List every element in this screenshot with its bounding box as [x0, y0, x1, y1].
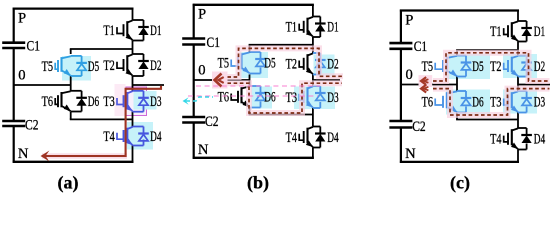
svg-text:T5: T5	[218, 56, 229, 72]
diode D2	[521, 61, 532, 63]
diode D3	[138, 97, 149, 99]
svg-text:D3: D3	[534, 95, 545, 111]
(a) wire clamp mid stubs	[70, 76, 72, 91]
(c) wire clamp top stub	[456, 50, 458, 56]
(a) wire clamp to T3-T4 junction	[70, 118, 133, 120]
highlight box around (a) T3	[126, 87, 147, 116]
svg-text:N: N	[198, 142, 209, 158]
svg-text:T2: T2	[103, 58, 114, 74]
svg-text:D6: D6	[264, 90, 275, 106]
svg-text:T6: T6	[42, 94, 53, 110]
gate of T2	[507, 60, 509, 72]
(b) N rail bottom wire	[193, 157, 314, 159]
(b) pink dashed line upper	[196, 85, 320, 87]
IGBT T5	[446, 57, 448, 73]
gate of T3	[507, 96, 509, 108]
diode D3	[521, 97, 532, 99]
(c) wire node 0 to clamp midpoint	[401, 84, 457, 86]
wire connectors of T3	[518, 90, 527, 92]
wire connectors of T6	[457, 90, 466, 92]
svg-text:P: P	[405, 12, 413, 28]
wire connectors of T1	[133, 19, 144, 21]
svg-text:T5: T5	[422, 59, 433, 75]
gate of T3	[303, 91, 305, 103]
gate of T5	[57, 60, 59, 72]
(c) red dashed upper commutation loop	[433, 53, 550, 81]
svg-text:T6: T6	[422, 95, 433, 111]
(b) red dashed upper commutation loop	[215, 48, 343, 77]
(a) P rail top wire	[13, 7, 134, 9]
(a) output wire	[133, 84, 165, 86]
IGBT T3	[306, 87, 308, 104]
diode D3	[315, 92, 326, 94]
IGBT T6	[446, 92, 448, 108]
gate of T2	[303, 58, 305, 70]
(b) pink halo lower loop	[215, 83, 342, 113]
(a) wire node 0 to clamp midpoint	[14, 84, 71, 86]
wire connectors of T6	[71, 90, 82, 92]
diode D6	[255, 92, 266, 94]
wire connectors of T4	[313, 126, 320, 128]
highlight glow behind (c) T2/D2	[503, 54, 537, 78]
svg-text:C1: C1	[207, 35, 221, 51]
svg-text:D5: D5	[88, 59, 99, 75]
(c) red dashed lower commutation loop	[433, 89, 550, 115]
(c) P rail top wire	[400, 9, 519, 11]
svg-text:T4: T4	[286, 130, 298, 146]
(b) pink dashed line lower	[188, 95, 318, 97]
(b) DC bus left rail	[193, 4, 195, 39]
(b) pink halo upper loop	[215, 48, 343, 77]
IGBT T2	[126, 55, 128, 72]
highlight glow behind (c) T6/D6	[446, 90, 490, 115]
svg-text:D2: D2	[327, 57, 338, 73]
(b) wire clamp to T3-T4 junction	[249, 114, 313, 116]
(c) red loop arrow upper at node 0	[419, 75, 433, 87]
(b) wire node 0 to clamp midpoint	[194, 79, 250, 81]
diode D5	[461, 61, 472, 63]
(a) red current arrow on N rail	[41, 151, 50, 162]
svg-text:P: P	[18, 10, 26, 26]
gate of T1	[123, 24, 125, 36]
(b) capacitor C1	[182, 37, 205, 40]
svg-text:D5: D5	[472, 59, 483, 75]
svg-text:D1: D1	[150, 23, 161, 39]
highlight glow behind (c) T3/D3	[503, 90, 537, 114]
(c) wire clamp to T1-T2 junction	[456, 49, 518, 51]
gate of T1	[303, 21, 305, 33]
highlight glow behind (a) T4/D4	[127, 122, 153, 150]
svg-text:T6: T6	[218, 90, 229, 106]
(c) capacitor C2	[389, 120, 412, 123]
wire connectors of T6	[250, 85, 261, 87]
diode D6	[461, 97, 472, 99]
svg-text:(a): (a)	[58, 173, 79, 194]
(b) cyan dashed transfer path with arrow	[186, 97, 213, 101]
(c) wire clamp bottom stub	[456, 113, 458, 120]
svg-text:D3: D3	[150, 94, 161, 110]
(b) wire clamp bottom stub	[249, 108, 251, 115]
IGBT T3	[126, 92, 128, 108]
svg-text:D1: D1	[327, 20, 338, 36]
(b) phase leg wire	[312, 5, 314, 17]
svg-text:P: P	[198, 7, 206, 23]
wire connectors of T1	[518, 20, 527, 22]
svg-text:T1: T1	[103, 23, 114, 39]
svg-text:D2: D2	[534, 59, 545, 75]
highlight glow behind (b) D6	[251, 87, 272, 109]
highlight glow behind (a) T3 pink wash	[115, 84, 126, 116]
gate of T5	[237, 57, 239, 69]
(c) phase leg wire	[517, 11, 519, 22]
(b) P rail top wire	[193, 4, 314, 6]
diode D1	[521, 27, 532, 29]
svg-text:T1: T1	[490, 24, 501, 40]
highlight glow behind (b) T3/D3	[294, 87, 335, 110]
svg-text:(c): (c)	[450, 173, 470, 194]
diode D5	[255, 58, 266, 60]
svg-text:N: N	[405, 146, 416, 162]
(b) wire clamp mid stubs	[249, 75, 251, 87]
diode D4	[138, 132, 149, 134]
IGBT T4	[511, 129, 513, 145]
wire connectors of T4	[518, 127, 527, 129]
gate of T1	[507, 25, 509, 37]
(c) pink halo lower loop	[433, 89, 550, 115]
svg-text:(b): (b)	[247, 173, 269, 194]
svg-text:D6: D6	[88, 94, 99, 110]
IGBT T1	[306, 18, 308, 33]
svg-text:D4: D4	[534, 132, 546, 148]
wire connectors of T2	[313, 52, 320, 54]
(a) wire clamp top stub	[70, 49, 72, 54]
wire connectors of T5	[250, 51, 261, 53]
(b) capacitor C2	[182, 116, 205, 119]
(c) N rail bottom wire	[400, 161, 519, 163]
(c) output wire	[518, 84, 550, 86]
svg-text:D4: D4	[327, 130, 339, 146]
(c) wire clamp mid stubs	[456, 77, 458, 92]
svg-text:T4: T4	[103, 129, 115, 145]
diode D4	[521, 134, 532, 136]
diode D1	[138, 26, 149, 28]
(a) DC bus left rail	[13, 8, 15, 43]
gate of T6	[57, 95, 59, 107]
(c) DC bus left rail	[400, 10, 402, 44]
(b) output wire	[313, 79, 340, 81]
wire connectors of T5	[457, 55, 466, 57]
svg-text:T3: T3	[490, 95, 501, 111]
(a) wire clamp bottom stub	[70, 112, 72, 120]
svg-text:T2: T2	[286, 57, 297, 73]
(c) pink halo upper loop	[433, 53, 550, 81]
IGBT T6	[60, 92, 62, 107]
(a) phase leg wire	[132, 9, 134, 20]
IGBT T6	[240, 87, 242, 103]
(b) red dashed lower commutation loop	[215, 83, 342, 113]
diode D2	[138, 60, 149, 62]
wire connectors of T1	[313, 16, 320, 18]
IGBT T2	[511, 57, 513, 73]
IGBT T4	[306, 128, 308, 144]
svg-text:C2: C2	[25, 118, 39, 134]
wire connectors of T5	[71, 55, 82, 57]
gate of T3	[123, 95, 125, 107]
highlight glow behind (a) T5/D5	[62, 56, 91, 81]
svg-text:T5: T5	[42, 59, 53, 75]
svg-text:C1: C1	[27, 38, 41, 54]
svg-text:D5: D5	[264, 56, 275, 72]
svg-text:D3: D3	[327, 90, 338, 106]
IGBT T3	[511, 92, 513, 108]
IGBT T1	[126, 21, 128, 36]
(a) capacitor C2	[2, 120, 25, 123]
svg-text:N: N	[18, 146, 29, 162]
diode D4	[315, 132, 326, 134]
svg-text:0: 0	[198, 63, 205, 79]
highlight glow behind (a) D3	[134, 91, 157, 110]
svg-text:C1: C1	[414, 39, 428, 55]
(c) red loop arrow lower at node 0	[421, 85, 426, 93]
svg-text:D6: D6	[472, 95, 483, 111]
gate of T2	[123, 59, 125, 71]
highlight glow behind (b) D2	[314, 55, 335, 76]
svg-text:T1: T1	[286, 20, 297, 36]
svg-text:0: 0	[406, 67, 413, 83]
gate of T4	[123, 130, 125, 142]
(b) wire clamp to T1-T2 junction	[249, 44, 313, 46]
svg-text:D4: D4	[150, 129, 162, 145]
gate of T4	[303, 131, 305, 143]
svg-text:D1: D1	[534, 24, 545, 40]
diode D6	[76, 97, 87, 99]
svg-text:T3: T3	[103, 94, 114, 110]
IGBT T2	[306, 54, 308, 70]
(a) red current path wire	[46, 86, 161, 156]
(a) N rail bottom wire	[13, 161, 134, 163]
IGBT T5	[60, 57, 62, 72]
IGBT T4	[126, 128, 128, 142]
wire connectors of T3	[133, 90, 144, 92]
svg-text:C2: C2	[205, 114, 219, 130]
wire connectors of T2	[133, 53, 144, 55]
wire connectors of T3	[313, 85, 320, 87]
wire connectors of T2	[518, 55, 527, 57]
(c) wire clamp to T3-T4 junction	[456, 119, 518, 121]
(b) red loop arrow at node 0	[212, 72, 228, 89]
svg-text:D2: D2	[150, 58, 161, 74]
highlight glow behind (c) T5/D5	[446, 54, 490, 79]
svg-text:C2: C2	[412, 119, 426, 135]
gate of T4	[507, 133, 509, 145]
(a) capacitor C1	[2, 41, 25, 44]
IGBT T5	[240, 53, 242, 69]
diode D1	[315, 22, 326, 24]
(b) wire clamp top stub	[249, 45, 251, 53]
(c) capacitor C1	[389, 42, 412, 45]
(a) wire clamp to T1-T2 junction	[70, 48, 133, 50]
svg-text:T2: T2	[490, 59, 501, 75]
IGBT T1	[511, 22, 513, 37]
gate of T6	[237, 91, 239, 103]
svg-text:T4: T4	[490, 132, 502, 148]
diode D2	[315, 59, 326, 61]
diode D5	[76, 62, 87, 64]
gate of T5	[442, 60, 444, 72]
svg-text:0: 0	[18, 68, 25, 84]
(b) cyan arrow head	[183, 97, 189, 104]
wire connectors of T4	[133, 126, 144, 128]
highlight glow behind (b) T5/D5	[240, 52, 268, 78]
svg-text:T3: T3	[286, 90, 297, 106]
(a) pink halo under N-rail current arrow	[42, 153, 127, 159]
gate of T6	[442, 96, 444, 108]
